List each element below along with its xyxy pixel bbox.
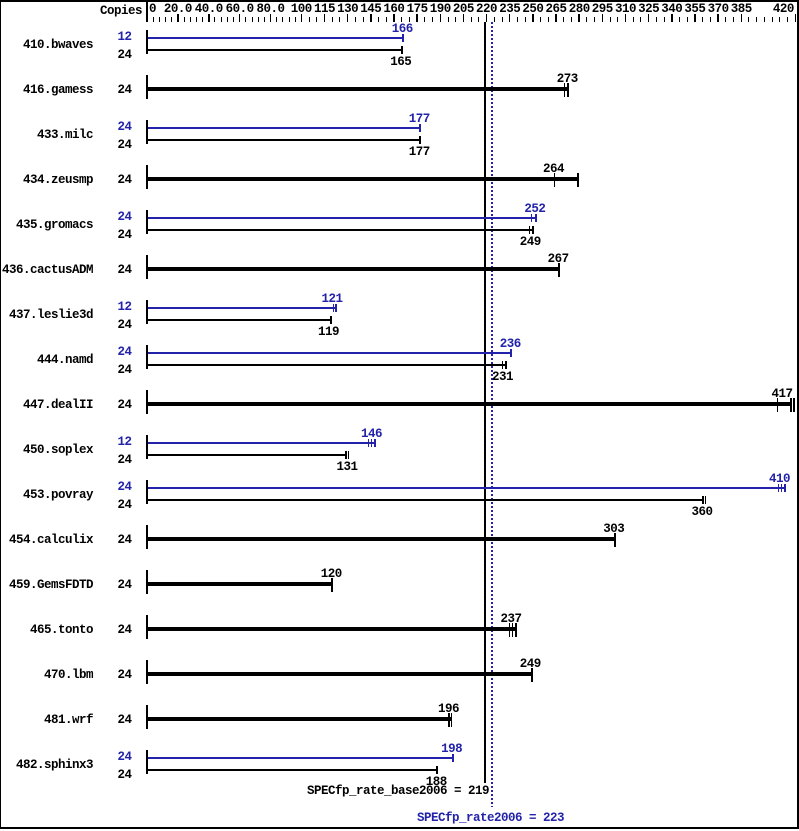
bar 454.calculix base 303 <box>148 537 616 541</box>
bar 444.namd peak 236 <box>148 352 512 354</box>
group 470.lbm <box>146 660 148 684</box>
axis labels <box>149 3 156 16</box>
bar 481.wrf base 196 <box>148 717 451 721</box>
bar 410.bwaves peak 166 <box>148 37 404 39</box>
bar 453.povray peak 410 <box>148 487 786 489</box>
group 465.tonto <box>146 615 148 639</box>
bar 435.gromacs base 249 <box>148 229 534 231</box>
group 447.dealII <box>146 390 148 414</box>
group 410.bwaves <box>146 30 148 54</box>
bar 450.soplex peak 146 <box>148 442 376 444</box>
bar 433.milc peak 177 <box>148 127 421 129</box>
bar 416.gamess base 273 <box>148 87 569 91</box>
bar 482.sphinx3 base 188 <box>148 769 438 771</box>
rate2006 dotted reference line (223) <box>491 22 493 807</box>
group 482.sphinx3 <box>146 750 148 774</box>
group 437.leslie3d <box>146 300 148 324</box>
bar 437.leslie3d base 119 <box>148 319 332 321</box>
group 453.povray <box>146 480 148 504</box>
bar 459.GemsFDTD base 120 <box>148 582 333 586</box>
group 481.wrf <box>146 705 148 729</box>
group 416.gamess <box>146 75 148 99</box>
group 436.cactusADM <box>146 255 148 279</box>
bar 437.leslie3d peak 121 <box>148 307 337 309</box>
axis zero line <box>146 2 148 22</box>
header Copies <box>100 5 142 18</box>
group 459.GemsFDTD <box>146 570 148 594</box>
group 434.zeusmp <box>146 165 148 189</box>
group 450.soplex <box>146 435 148 459</box>
group 433.milc <box>146 120 148 144</box>
bar 435.gromacs peak 252 <box>148 217 537 219</box>
base result label <box>307 785 489 798</box>
bar 450.soplex base 131 <box>148 454 347 456</box>
bar 465.tonto base 237 <box>148 627 517 631</box>
bar 410.bwaves base 165 <box>148 49 403 51</box>
bar 453.povray base 360 <box>148 499 704 501</box>
bar 447.dealII base 417 <box>148 402 792 406</box>
group 454.calculix <box>146 525 148 549</box>
bar 433.milc base 177 <box>148 139 421 141</box>
peak result label <box>417 812 564 825</box>
group 435.gromacs <box>146 210 148 234</box>
group 444.namd <box>146 345 148 369</box>
base2006 reference line (219) <box>484 22 486 783</box>
border frame <box>0 0 799 2</box>
axis ticks <box>177 14 179 22</box>
bar 436.cactusADM base 267 <box>148 267 560 271</box>
bar 444.namd base 231 <box>148 364 507 366</box>
bar 470.lbm base 249 <box>148 672 532 676</box>
bar 482.sphinx3 peak 198 <box>148 757 454 759</box>
bar 434.zeusmp base 264 <box>148 177 579 181</box>
